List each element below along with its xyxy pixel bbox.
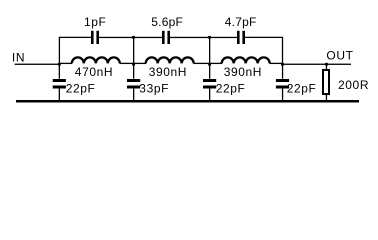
wire top branch 1 right half <box>99 37 134 38</box>
wire node 4 vertical lower (C7 to ground) <box>282 89 283 101</box>
wire top branch 3 left half (node3 to C3) <box>210 37 237 38</box>
svg-text:390nH: 390nH <box>224 65 262 79</box>
svg-text:4.7pF: 4.7pF <box>225 15 257 29</box>
wire IN to node 1 <box>15 64 60 65</box>
svg-text:IN: IN <box>12 51 25 65</box>
junction node 2 top dot <box>132 36 135 39</box>
svg-text:OUT: OUT <box>326 48 353 62</box>
junction node 4 dot <box>281 63 284 66</box>
junction node 2 main dot <box>132 63 135 66</box>
wire node 2 vertical lower <box>133 89 134 101</box>
wire top branch 1 horizontal (node1 up/over to node2) <box>59 37 91 64</box>
junction node 1 dot <box>58 63 61 66</box>
capacitor C2 5.6pF plates <box>162 31 165 44</box>
junction resistor top dot <box>325 63 328 66</box>
svg-text:22pF: 22pF <box>66 82 96 96</box>
wire node 3 vertical lower <box>209 89 210 101</box>
junction node 3 top dot <box>208 36 211 39</box>
ground rail <box>16 100 359 103</box>
wire node 3 vertical upper <box>209 37 210 78</box>
capacitor C6 22pF plates <box>203 79 216 82</box>
inductor L1 470nH coil <box>60 62 72 64</box>
svg-text:470nH: 470nH <box>75 65 113 79</box>
svg-text:390nH: 390nH <box>149 65 187 79</box>
svg-text:200R: 200R <box>338 78 369 92</box>
resistor R1 200R body <box>323 70 329 94</box>
wire node 1 vertical upper (main line to C4 top plate) <box>59 64 60 79</box>
svg-text:22pF: 22pF <box>216 82 246 96</box>
capacitor C5 33pF plates <box>127 79 140 82</box>
inductor L2 390nH coil <box>134 62 146 64</box>
wire OUT segment from node 4 through resistor top to OUT <box>283 64 352 65</box>
junction node 3 main dot <box>208 63 211 66</box>
svg-text:33pF: 33pF <box>139 82 169 96</box>
wire node 2 vertical upper <box>133 37 134 78</box>
wire top branch 2 left half (node2 to C2) <box>134 37 162 38</box>
capacitor C3 4.7pF plates <box>237 31 240 44</box>
capacitor C1 1pF plates <box>91 31 94 44</box>
svg-text:1pF: 1pF <box>84 15 106 29</box>
capacitor C7 22pF plates <box>276 79 289 82</box>
wire top branch 3 right half and corner down to node 4 <box>245 37 283 64</box>
svg-text:5.6pF: 5.6pF <box>151 15 183 29</box>
svg-text:22pF: 22pF <box>287 82 317 96</box>
wire node 4 vertical upper (main line to C7) <box>282 64 283 79</box>
capacitor C4 22pF plates <box>53 79 66 82</box>
wire resistor bottom lead <box>326 95 327 100</box>
wire top branch 2 right half (C2 to node3) <box>170 37 210 38</box>
inductor L3 390nH coil <box>210 62 222 64</box>
wire resistor top lead <box>326 64 327 69</box>
wire node 1 vertical lower (C4 bottom plate to ground) <box>59 89 60 101</box>
